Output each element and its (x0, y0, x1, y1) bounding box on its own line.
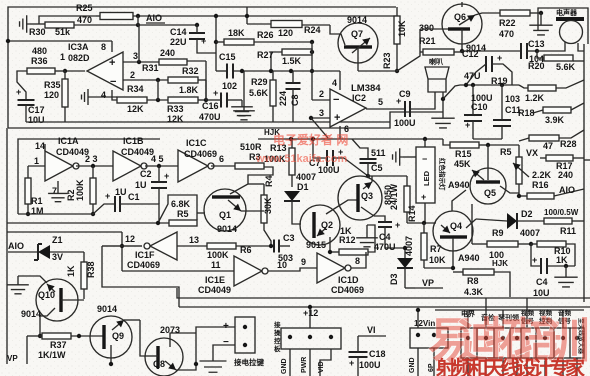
ground C16 (231, 100, 253, 116)
svg-text:−: − (223, 337, 229, 348)
wire R36 left leg (0, 0, 1, 1)
label IC1B (123, 136, 144, 146)
inverter U IC1D (317, 253, 351, 283)
label AIO right (559, 185, 575, 195)
resistor R25 (100, 13, 133, 20)
inverter U IC1C (178, 150, 214, 182)
svg-text:VX: VX (526, 148, 538, 158)
wire IC3A output row (6, 39, 112, 43)
pin 1 IC1A (28, 156, 45, 178)
label CD4069 IC1F (127, 260, 160, 270)
pin 1 IC3A (60, 52, 85, 73)
svg-text:IC1F: IC1F (135, 250, 155, 260)
svg-text:C17: C17 (28, 105, 45, 115)
svg-text:9: 9 (301, 257, 306, 267)
label R30 (29, 27, 46, 37)
svg-text:www.51kaifa.com: www.51kaifa.com (255, 153, 348, 165)
svg-text:R12: R12 (339, 235, 356, 245)
svg-text:R7: R7 (430, 244, 442, 254)
resistor 10K vertical (394, 7, 400, 73)
svg-text:板: 板 (274, 344, 281, 353)
svg-text:Q1: Q1 (219, 210, 231, 220)
pin 6 IC2 (340, 124, 349, 139)
resistor R12 (328, 225, 375, 255)
svg-text:IC2: IC2 (352, 93, 366, 103)
label 470 R25 (77, 15, 92, 25)
svg-text:3V: 3V (52, 252, 63, 262)
LED box (416, 147, 435, 203)
label AIO left (8, 241, 24, 251)
svg-text:7: 7 (52, 186, 57, 196)
label R16 (532, 180, 549, 190)
svg-text:红色指示灯: 红色指示灯 (438, 158, 447, 191)
wire LED top (424, 139, 426, 147)
label 120 R35 (44, 90, 59, 100)
label R36 (31, 56, 48, 66)
resistor R32 (168, 77, 206, 83)
label R19 (491, 76, 508, 86)
label IC1E (205, 275, 225, 285)
svg-text:2 3: 2 3 (85, 154, 98, 164)
ground C9 (431, 92, 454, 128)
label 10U (533, 288, 550, 298)
pin 2 IC3A (123, 70, 168, 82)
label VI (358, 325, 386, 336)
label 4.3K (464, 287, 484, 297)
label 2 3 (85, 154, 98, 164)
label 5.6K R20 (556, 62, 576, 72)
label R38 (86, 261, 96, 278)
diode D1 (284, 191, 301, 224)
ground mid top (233, 71, 255, 120)
svg-text:100K: 100K (75, 179, 85, 201)
label 10K (397, 20, 407, 37)
wire left border lower (6, 128, 8, 364)
label 9014 Q6 (466, 43, 486, 53)
resistor R9 (472, 241, 533, 247)
svg-text:10: 10 (277, 260, 287, 270)
svg-text:Z1: Z1 (52, 235, 63, 245)
resistor R2 vertical (90, 166, 96, 216)
svg-text:C13: C13 (528, 39, 545, 49)
wire Q3 base (0, 0, 1, 1)
ground input left (20, 15, 30, 33)
svg-text:9015: 9015 (306, 240, 326, 250)
svg-text:CD4049: CD4049 (198, 285, 231, 295)
svg-text:12: 12 (125, 234, 135, 244)
svg-text:120: 120 (278, 28, 293, 38)
watermark url red (255, 153, 348, 165)
label 4007 D3 (404, 236, 414, 256)
svg-text:+: + (465, 120, 470, 130)
wire R27 drop (310, 42, 314, 100)
svg-text:R35: R35 (44, 80, 61, 90)
pin 3 IC3A (123, 51, 159, 64)
label VID pin (318, 361, 325, 373)
label 1K R38 (66, 265, 76, 277)
wire rail y84 (443, 83, 519, 99)
wire Q6 to R22 (475, 13, 500, 15)
label 390 (419, 23, 434, 33)
ground speaker2 (0, 0, 1, 1)
label R37 (50, 340, 67, 350)
label 10U (28, 115, 45, 125)
wire R18 left (0, 0, 1, 1)
inverter U IC1B (113, 151, 147, 181)
label 12K R33 (167, 114, 184, 124)
label battery cn (234, 357, 264, 367)
watermark line2 (435, 356, 586, 376)
label R5 pot (500, 147, 512, 157)
label 30K (263, 197, 273, 214)
label col7 cn (577, 318, 585, 355)
wire long y223 (7, 221, 169, 225)
capacitor C2 (151, 166, 169, 204)
label Q5 (484, 188, 496, 198)
svg-text:HJK: HJK (492, 259, 508, 268)
svg-text:R28: R28 (560, 139, 577, 149)
svg-text:IC1A: IC1A (58, 136, 79, 146)
ground R22 (529, 13, 552, 35)
svg-text:VP: VP (7, 354, 18, 363)
svg-text:R24: R24 (304, 25, 321, 35)
label R4 (264, 175, 274, 187)
svg-text:控: 控 (274, 336, 281, 345)
label 18K (228, 28, 245, 38)
label R33 (167, 104, 184, 114)
label LED minus (422, 154, 427, 164)
svg-text:R37: R37 (50, 340, 67, 350)
label 4 5 (151, 154, 164, 164)
svg-text:1.8K: 1.8K (179, 85, 199, 95)
svg-text:1: 1 (34, 156, 39, 166)
capacitor C9 (396, 92, 435, 117)
svg-text:R30: R30 (29, 27, 46, 37)
wire C7 diag to Q3 (344, 158, 370, 178)
svg-text:102: 102 (222, 81, 237, 91)
label R35 (44, 80, 61, 90)
label A940 Q4 (458, 253, 480, 263)
svg-text:R19: R19 (491, 76, 508, 86)
label C4 (379, 232, 391, 242)
label 503 (278, 253, 293, 263)
label R7 (430, 244, 442, 254)
svg-text:R4: R4 (264, 175, 274, 187)
svg-text:IC1E: IC1E (205, 275, 225, 285)
resistor R16 (517, 189, 584, 199)
label +12 (303, 308, 318, 318)
wire top border (8, 7, 396, 128)
label R5 68K (171, 199, 191, 209)
label speaker2 (429, 57, 443, 66)
svg-text:CD4069: CD4069 (331, 285, 364, 295)
speaker box (538, 8, 588, 44)
svg-text:CD4049: CD4049 (121, 147, 154, 157)
svg-text:R31: R31 (142, 63, 159, 73)
svg-text:9014: 9014 (21, 309, 41, 319)
wire right border (583, 44, 585, 302)
svg-text:D3: D3 (389, 273, 399, 285)
svg-text:10K: 10K (429, 255, 446, 265)
svg-text:6: 6 (219, 154, 224, 164)
label 470 R22 (499, 29, 514, 39)
svg-text:IC1C: IC1C (186, 138, 207, 148)
resistor R19 (519, 85, 556, 91)
label R28 (560, 139, 577, 149)
svg-text:R22: R22 (499, 18, 516, 28)
svg-text:11: 11 (211, 260, 221, 270)
wire y16 link (39, 16, 96, 24)
label C18 (369, 349, 386, 359)
label 1.2K (525, 93, 545, 103)
wire R32-R33 join (205, 80, 207, 100)
label VP left (7, 354, 18, 363)
label Q7 (351, 29, 363, 39)
label R5 (177, 209, 189, 219)
resistor R31 240 (159, 59, 206, 65)
connector 12Vin box (410, 328, 448, 348)
pin 11 (122, 260, 234, 271)
wire spk top (0, 0, 1, 1)
pin 3 IC2 (309, 108, 330, 138)
connector battery box (235, 317, 255, 353)
svg-text:470: 470 (499, 29, 514, 39)
svg-text:VID: VID (318, 361, 325, 373)
op-amp U IC2 LM386 (330, 89, 366, 127)
svg-text:PWR: PWR (301, 357, 308, 373)
svg-text:480: 480 (32, 46, 47, 56)
wire Q8 base drop (140, 320, 145, 356)
svg-text:+: + (201, 36, 206, 46)
resistor R21 (423, 49, 462, 55)
svg-text:−: − (110, 76, 116, 88)
svg-text:5.6K: 5.6K (556, 62, 576, 72)
svg-text:R21: R21 (419, 36, 436, 46)
label 102 (222, 81, 237, 91)
resistor R11 (544, 218, 584, 224)
wire C10 C11 bottom (473, 138, 502, 140)
capacitor C3 (274, 240, 290, 253)
svg-text:+: + (334, 112, 340, 124)
wire IC1A out (76, 164, 113, 168)
label R6 (240, 245, 252, 255)
wire input row (30, 23, 45, 25)
svg-text:−: − (422, 154, 427, 164)
svg-text:45K: 45K (454, 159, 471, 169)
label 1K R10 (556, 255, 568, 265)
svg-text:Q10: Q10 (38, 290, 55, 300)
label R23 (382, 52, 392, 69)
resistor R29 vertical (270, 71, 276, 122)
label 10 (277, 260, 287, 270)
svg-text:Q3: Q3 (361, 191, 373, 201)
resistor R1 vertical (25, 178, 31, 216)
svg-text:13: 13 (189, 235, 199, 245)
label 9014 Q9 (97, 304, 117, 314)
svg-text:8: 8 (355, 256, 360, 266)
label D1 (297, 182, 309, 192)
svg-text:CD4069: CD4069 (184, 149, 217, 159)
label Q2 (321, 220, 333, 230)
svg-text:Q9: Q9 (112, 331, 124, 341)
resistor R17 (540, 155, 584, 161)
label 47 (543, 141, 553, 151)
label Q1 (219, 210, 231, 220)
connector 3pin box (281, 328, 341, 349)
label R20 (528, 61, 545, 71)
wire bus y310 (435, 309, 584, 311)
inverter U IC1F (144, 232, 177, 260)
label 1K/1W (38, 350, 66, 360)
wire Q7 emitter bus (358, 30, 420, 71)
svg-text:R9: R9 (492, 228, 504, 238)
label PWR pin (301, 357, 308, 373)
wire R19 right (556, 80, 584, 88)
label C4b (536, 277, 548, 287)
label R32 (182, 66, 199, 76)
svg-text:+: + (213, 88, 218, 98)
resistor R18 (533, 103, 584, 113)
wire speaker2 top (0, 0, 1, 1)
wire R7 bottom row (424, 266, 455, 270)
wire IC1 bottom bus (18, 213, 93, 215)
svg-text:R1: R1 (31, 196, 43, 206)
resistor R34 (112, 97, 168, 103)
wire audio out (0, 0, 1, 1)
svg-text:喇叭: 喇叭 (429, 57, 443, 66)
wire long y232 (7, 231, 122, 233)
wire top section bottom rail (8, 112, 443, 128)
svg-text:C3: C3 (283, 233, 295, 243)
svg-text:AIO: AIO (146, 13, 162, 23)
wire rail y223 (407, 221, 436, 225)
label 120 R24 (278, 28, 293, 38)
label VP mid (405, 278, 443, 288)
label col5 cn (539, 308, 553, 325)
svg-text:VP: VP (422, 278, 434, 288)
wire +12 riser (308, 305, 312, 328)
transistor Q1 9014 (204, 189, 264, 231)
resistor R26 (216, 39, 314, 45)
svg-text:R8: R8 (467, 276, 479, 286)
svg-text:4.3K: 4.3K (464, 287, 484, 297)
label 240 (558, 170, 573, 180)
label 103 (505, 94, 520, 104)
label R24 (304, 25, 321, 35)
svg-text:D2: D2 (521, 209, 533, 219)
resistor R14 vertical (404, 176, 410, 223)
label 510R (240, 142, 262, 152)
capacitor C14 (189, 25, 216, 53)
svg-text:电声器: 电声器 (556, 8, 578, 17)
svg-text:100U: 100U (318, 165, 340, 175)
svg-text:R38: R38 (86, 261, 96, 278)
resistor R10 (531, 241, 575, 266)
svg-text:10U: 10U (533, 288, 550, 298)
label C2 (140, 169, 152, 179)
label R8 (467, 276, 479, 286)
label 10K R7 (429, 255, 446, 265)
svg-text:+: + (109, 57, 115, 69)
resistor R3 (235, 163, 264, 169)
label col2 cn (481, 313, 495, 322)
ground Q2 R12 (356, 225, 378, 247)
svg-text:C1: C1 (128, 192, 140, 202)
transistor Q3 8050 (338, 176, 382, 220)
svg-text:1.2K: 1.2K (525, 93, 545, 103)
label R1 (31, 196, 43, 206)
svg-text:100/0.5W: 100/0.5W (544, 208, 579, 217)
diode D3 (397, 246, 413, 288)
label 100U C10 (471, 93, 493, 103)
svg-text:C5: C5 (371, 163, 383, 173)
svg-text:GND: GND (409, 357, 416, 373)
svg-text:+: + (395, 220, 400, 230)
svg-text:R11: R11 (560, 226, 576, 236)
label col1 cn (461, 309, 476, 318)
svg-text:10U: 10U (28, 115, 45, 125)
label Q8 (153, 359, 165, 369)
wire y246 left (102, 245, 142, 247)
svg-text:R33: R33 (167, 104, 184, 114)
label 51k (55, 27, 71, 37)
label Q9 (112, 331, 124, 341)
label 470U C4 (374, 242, 396, 252)
label R17 (556, 161, 573, 171)
capacitor C10 (464, 85, 482, 139)
ground C4b (554, 266, 577, 287)
svg-text:R15: R15 (455, 149, 472, 159)
pin 4 IC2 (332, 71, 340, 90)
svg-text:4007: 4007 (404, 236, 414, 256)
svg-text:1.5K: 1.5K (282, 56, 302, 66)
svg-text:470: 470 (77, 15, 92, 25)
wire Q9 base (0, 0, 1, 1)
svg-text:R16: R16 (532, 180, 549, 190)
wire 3pin legs (290, 349, 331, 376)
label 1.8K (179, 85, 199, 95)
resistor R35 vertical (62, 71, 68, 122)
svg-text:R29: R29 (251, 77, 268, 87)
resistor R33 (168, 97, 208, 103)
svg-text:4007: 4007 (296, 172, 316, 182)
svg-text:+: + (16, 87, 21, 97)
label C11 (505, 105, 521, 115)
capacitor C13 (462, 43, 539, 59)
label C1 (128, 192, 140, 202)
label R31 (142, 63, 159, 73)
resistor R37 (27, 333, 104, 339)
ground Q10 (7, 276, 47, 294)
label C17 (28, 105, 45, 115)
label 470U C16 (199, 112, 221, 122)
wire IC1 box frame (18, 139, 160, 214)
label 2.2K (532, 170, 552, 180)
label R9 (492, 228, 504, 238)
wire AIO stub (8, 251, 38, 253)
transistor Q2 9015 (300, 200, 357, 252)
svg-text:R14: R14 (407, 205, 417, 222)
svg-text:47U: 47U (464, 71, 481, 81)
label R15 (455, 149, 472, 159)
ground LED (393, 148, 416, 166)
label 4007 D1 (296, 172, 316, 182)
label R25 (76, 3, 93, 13)
label conn2 cn (274, 320, 281, 353)
wire node riser (137, 16, 139, 25)
capacitor C4b 10U (531, 244, 575, 274)
label D3 (389, 273, 399, 285)
